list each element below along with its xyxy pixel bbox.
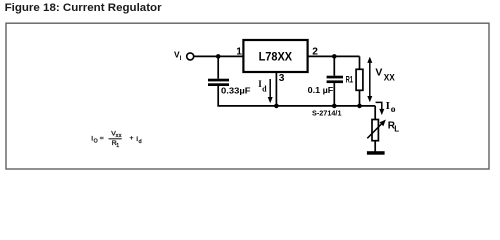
svg-text:O: O — [94, 139, 98, 145]
current Id label — [258, 79, 267, 94]
svg-text:S-2714/1: S-2714/1 — [312, 110, 342, 117]
ground — [367, 151, 385, 155]
frame border — [6, 23, 489, 169]
wire R1 bottom lead — [359, 90, 361, 106]
svg-text:R1: R1 — [346, 75, 353, 85]
svg-text:V: V — [375, 66, 382, 78]
wire C2 bottom lead — [333, 83, 335, 106]
svg-text:1: 1 — [116, 143, 119, 149]
svg-text:L: L — [394, 125, 399, 134]
node junction pin 3 — [274, 104, 279, 109]
svg-text:0.33µF: 0.33µF — [221, 86, 251, 96]
svg-text:d: d — [262, 84, 267, 93]
wire C1 bottom lead — [217, 86, 219, 106]
wire pin 3 lead — [275, 72, 277, 106]
current Id arrow — [268, 79, 273, 103]
input terminal circle — [187, 53, 194, 60]
svg-text:XX: XX — [384, 72, 396, 83]
svg-text:=: = — [100, 135, 104, 142]
wire rail corner to RL — [374, 106, 376, 120]
current Io label — [386, 100, 396, 115]
wire input to pin 1 — [194, 55, 243, 57]
label RL — [388, 121, 400, 134]
node junction R1 bottom — [357, 104, 362, 109]
svg-text:d: d — [139, 139, 142, 145]
wire R1 top lead — [359, 56, 361, 69]
op-amp U1 L78XX regulator box — [243, 40, 307, 72]
label R1 — [346, 75, 353, 85]
svg-text:0.1 µF: 0.1 µF — [308, 85, 334, 95]
current Io arrow — [376, 102, 385, 115]
wire RL bottom lead — [374, 141, 376, 152]
formula Io = Vxx/R1 + Id — [91, 130, 141, 149]
capacitor C2 0.1uF — [327, 76, 343, 83]
svg-text:+: + — [130, 135, 134, 142]
wire pin 2 to R1 — [308, 55, 360, 57]
capacitor C1 0.33uF — [208, 79, 229, 86]
pin 1 label — [236, 46, 242, 57]
svg-text:1: 1 — [236, 46, 242, 57]
node junction C2 bottom — [332, 104, 337, 109]
value label 0.1uF — [308, 85, 334, 95]
svg-text:o: o — [391, 105, 396, 115]
part number S-2714/1 — [312, 110, 342, 117]
pin 2 label — [312, 46, 318, 57]
node junction input — [216, 54, 221, 59]
svg-text:xx: xx — [116, 133, 122, 139]
node junction pin 2 — [332, 54, 337, 59]
node Vi label — [174, 50, 182, 63]
svg-text:I: I — [386, 100, 390, 112]
value label 0.33uF — [221, 86, 251, 96]
wire C1 top lead — [217, 56, 219, 78]
wire bottom rail — [217, 105, 375, 107]
figure title — [5, 2, 162, 14]
wire C2 top lead — [333, 56, 335, 75]
resistor RL variable — [367, 120, 386, 141]
voltage Vxx label — [375, 66, 395, 82]
voltage Vxx arrow — [367, 57, 372, 103]
resistor R1 — [356, 69, 363, 90]
svg-text:L78XX: L78XX — [259, 50, 293, 64]
svg-text:3: 3 — [279, 73, 285, 84]
svg-text:I: I — [180, 56, 182, 62]
svg-text:Figure 18: Current Regulator: Figure 18: Current Regulator — [5, 2, 162, 14]
pin 3 label — [279, 73, 285, 84]
